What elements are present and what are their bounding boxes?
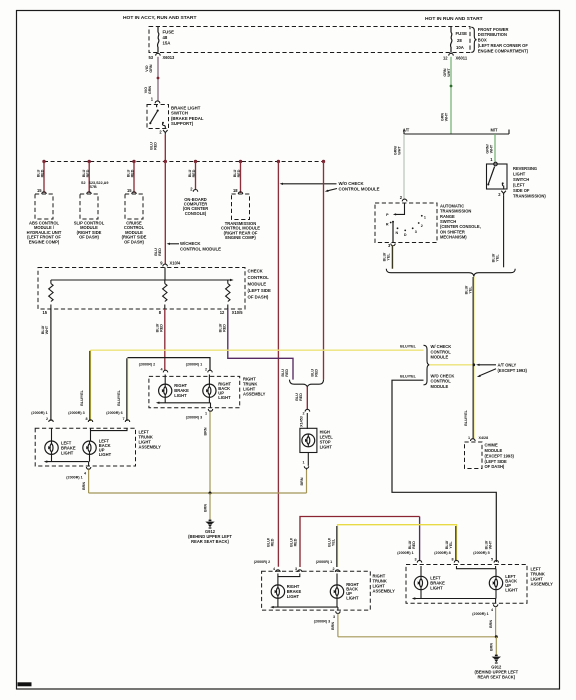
wire BLU/YEL reversing switch down: [492, 195, 504, 267]
diagram id block: [18, 682, 32, 686]
svg-text:SIDE OF: SIDE OF: [513, 188, 530, 193]
svg-text:S2: S2: [81, 181, 86, 185]
connectors above bottom right assembly: [254, 560, 340, 572]
svg-text:LIGHT: LIGHT: [320, 444, 333, 449]
wire BLU/YEL from range switch: [383, 246, 394, 269]
svg-text:BRN: BRN: [300, 477, 304, 485]
svg-text:RED: RED: [192, 169, 196, 177]
wire BLU/RED to transmission control module: [233, 162, 243, 195]
svg-text:(2000R) 1: (2000R) 1: [472, 612, 488, 616]
reversing light switch box: [487, 162, 508, 189]
connectors above right trunk light assembly: [139, 362, 212, 372]
svg-text:FUSE: FUSE: [456, 31, 468, 36]
svg-text:ENGINE COMPARTMENT): ENGINE COMPARTMENT): [478, 48, 529, 53]
svg-text:MECHANISM): MECHANISM): [440, 235, 467, 240]
bottom right trunk light assembly box: [262, 571, 371, 610]
wire BRN to G912 (bottom): [490, 637, 497, 656]
right brake light bulb: [159, 384, 172, 397]
pins below check module, connector X10/5: [42, 310, 243, 315]
right back up light bulb (bottom): [330, 585, 343, 598]
wire BRN left assembly to ground bus: [82, 469, 88, 493]
svg-text:BRN: BRN: [203, 427, 207, 435]
svg-text:YEL: YEL: [496, 254, 500, 262]
bottom left ground exit connector: [472, 604, 498, 615]
svg-text:(2000R) 1: (2000R) 1: [186, 362, 202, 366]
svg-text:2: 2: [421, 224, 423, 228]
svg-text:RED: RED: [86, 169, 90, 177]
left trunk light assembly box: [35, 428, 135, 466]
svg-text:TRANSMISSION): TRANSMISSION): [513, 194, 546, 199]
svg-text:REAR SEAT BACK): REAR SEAT BACK): [477, 675, 515, 680]
svg-text:3: 3: [415, 230, 417, 234]
wire BLU/YEL merged down to chime module: [464, 277, 475, 440]
brace w/check - w/o check: [424, 345, 430, 385]
wire BLU/RED merged to high level stop light: [295, 387, 307, 410]
svg-text:(2000R) 2: (2000R) 2: [254, 560, 270, 564]
svg-text:3: 3: [414, 558, 416, 562]
svg-text:BRN: BRN: [203, 504, 207, 512]
svg-text:30809: 30809: [20, 683, 29, 687]
right assembly ground exit connector: [186, 409, 213, 420]
svg-text:YEL: YEL: [449, 541, 453, 549]
svg-text:W/O CHECK: W/O CHECK: [431, 373, 455, 378]
svg-text:(EXCEPT 1993): (EXCEPT 1993): [498, 368, 528, 373]
left back up light bulb (bottom): [489, 576, 502, 589]
svg-text:CHECK: CHECK: [248, 269, 264, 274]
svg-text:CONTROL: CONTROL: [431, 379, 452, 384]
left trunk light assembly internals: [44, 428, 127, 466]
A/T - M/T split line: [403, 128, 509, 134]
wire GRN/WHT to A/T range switch: [394, 134, 407, 201]
reversing switch exit connector: [498, 191, 506, 197]
svg-text:28: 28: [457, 38, 462, 43]
svg-text:YEL: YEL: [387, 253, 391, 261]
bracket for front power distribution box: [471, 27, 476, 52]
svg-text:FRONT POWER: FRONT POWER: [478, 27, 509, 32]
wire BLU/RED check module to right brake light: [156, 309, 165, 371]
svg-text:SWITCH: SWITCH: [171, 111, 188, 116]
svg-text:LIGHT: LIGHT: [99, 452, 112, 457]
label W/CHECK CONTROL MODULE (left): [167, 241, 222, 251]
svg-text:(LEFT REAR CORNER OF: (LEFT REAR CORNER OF: [478, 43, 529, 48]
wire labels above bottom left assembly: [408, 540, 493, 549]
svg-text:RED: RED: [160, 324, 164, 332]
bottom left trunk light assembly label: [531, 567, 554, 587]
wire BLU/YEL vertical to left back up light: [80, 350, 91, 421]
wire BLU/RED (maroon) linking bottom brake lights: [300, 517, 420, 568]
svg-text:WHT: WHT: [45, 325, 49, 334]
svg-text:LIGHT: LIGHT: [513, 172, 526, 177]
svg-text:15A: 15A: [163, 41, 171, 46]
svg-text:WHT: WHT: [489, 540, 493, 549]
svg-text:X10/5: X10/5: [232, 310, 243, 315]
bottom right assembly internals: [270, 574, 359, 611]
svg-text:(EXCEPT 1993): (EXCEPT 1993): [485, 453, 515, 458]
wire BLU/RED (violet) check module to high level stop light: [219, 309, 294, 380]
resistor R2: [163, 280, 167, 309]
left trunk light assembly label: [139, 430, 162, 450]
svg-text:(2000R) 1: (2000R) 1: [31, 411, 47, 415]
connector X6011: [443, 53, 468, 60]
svg-text:MODULE: MODULE: [485, 448, 503, 453]
label A/T ONLY (EXCEPT 1993): [476, 363, 527, 377]
wire BRN to G912 (mid): [203, 493, 210, 521]
svg-text:MODULE: MODULE: [248, 282, 267, 287]
svg-text:W/O CHECK: W/O CHECK: [339, 181, 365, 186]
wire BLU/RED brake switch to check control module: [164, 162, 166, 265]
svg-text:BRN: BRN: [82, 482, 86, 490]
svg-text:12: 12: [220, 310, 225, 315]
left brake light bulb (bottom): [414, 576, 427, 589]
svg-text:LIGHT: LIGHT: [287, 594, 300, 599]
svg-text:(2000R) 1: (2000R) 1: [316, 560, 332, 564]
svg-text:RED: RED: [131, 169, 135, 177]
connectors above left trunk light assembly: [31, 411, 129, 422]
svg-text:(2000R) 1: (2000R) 1: [397, 551, 413, 555]
brake light switch S (dashed box): [147, 97, 204, 135]
svg-text:(2000R) 8: (2000R) 8: [434, 551, 450, 555]
svg-text:ASSEMBLY: ASSEMBLY: [243, 391, 266, 396]
svg-text:BRN: BRN: [489, 620, 493, 628]
svg-text:OF DASH): OF DASH): [248, 295, 269, 300]
svg-text:OF DASH): OF DASH): [485, 464, 505, 469]
svg-text:15: 15: [37, 188, 42, 193]
connector X10/4: [160, 260, 181, 266]
bottom left trunk light assembly box: [406, 565, 527, 604]
front power distribution box text: [478, 27, 529, 54]
svg-text:BLU/YEL: BLU/YEL: [117, 389, 121, 406]
svg-text:W/CHECK: W/CHECK: [180, 241, 201, 246]
wire BRN bottom right assembly to ground bus: [331, 614, 338, 637]
connector X1453 into high level stop light: [300, 409, 310, 427]
right brake light bulb (bottom): [271, 585, 284, 598]
svg-text:ENGINE COMP): ENGINE COMP): [29, 239, 60, 244]
fuse F48: [157, 27, 174, 53]
svg-text:CHIME: CHIME: [485, 443, 498, 448]
svg-text:2: 2: [205, 367, 207, 371]
svg-text:LIGHT: LIGHT: [218, 395, 231, 400]
svg-text:GRN: GRN: [149, 64, 153, 73]
bus junction dots: [42, 160, 325, 163]
svg-text:OF DASH): OF DASH): [79, 235, 99, 240]
svg-text:2: 2: [332, 567, 334, 571]
wire GRN/WHT to reversing light switch: [485, 134, 495, 162]
svg-text:3: 3: [333, 615, 335, 619]
chime module text: [485, 443, 515, 470]
wire BLU/RED to ABS module: [37, 162, 47, 195]
svg-text:CONTROL MODULE: CONTROL MODULE: [180, 246, 221, 251]
svg-text:R: R: [386, 223, 389, 227]
dashed distribution bus: [44, 161, 324, 163]
svg-text:HOT IN RUN AND START: HOT IN RUN AND START: [425, 16, 483, 22]
svg-text:WHT: WHT: [445, 112, 449, 121]
svg-text:BOX: BOX: [478, 38, 487, 43]
svg-text:ASSEMBLY: ASSEMBLY: [139, 445, 162, 450]
left back up light bulb: [83, 441, 96, 454]
ABS control module box: [27, 194, 62, 244]
fuse F28: [450, 27, 467, 53]
svg-text:X6011: X6011: [456, 56, 468, 61]
svg-text:RED: RED: [314, 369, 318, 377]
left assembly ground exit connector: [66, 467, 91, 480]
svg-text:DISTRIBUTION: DISTRIBUTION: [478, 32, 507, 37]
svg-text:WHT: WHT: [447, 68, 451, 77]
svg-text:FUSE: FUSE: [163, 30, 175, 35]
right trunk light assembly box: [149, 376, 240, 407]
check control module internals: [49, 268, 234, 310]
ground G912 (bottom): [474, 655, 518, 680]
svg-text:RED: RED: [41, 169, 45, 177]
svg-text:A/T ONLY: A/T ONLY: [498, 363, 517, 368]
label W/ CHECK CONTROL MODULE: [431, 344, 452, 360]
reversing light switch text: [513, 166, 546, 199]
check control module box (dashed): [38, 268, 245, 310]
svg-text:MODULE: MODULE: [431, 355, 449, 360]
bottom left assembly internals: [412, 566, 518, 603]
svg-text:BLU/YEL: BLU/YEL: [464, 409, 468, 426]
svg-text:12: 12: [443, 56, 448, 61]
wire BLU/YEL linking bottom back up lights: [337, 525, 457, 567]
svg-text:REAR SEAT BACK): REAR SEAT BACK): [191, 539, 229, 544]
svg-text:(LEFT SIDE: (LEFT SIDE: [485, 459, 508, 464]
svg-text:ASSEMBLY: ASSEMBLY: [531, 582, 554, 587]
svg-text:RED: RED: [299, 393, 303, 401]
left brake light bulb: [45, 441, 58, 454]
svg-text:RED: RED: [412, 541, 416, 549]
svg-text:3: 3: [295, 567, 297, 571]
svg-text:1: 1: [205, 412, 207, 416]
resistor R3: [226, 280, 230, 309]
wire BLU/RED (bus end to high level stop light): [323, 162, 325, 380]
bottom right trunk light assembly label: [373, 574, 396, 594]
svg-text:CONTROL MODULE: CONTROL MODULE: [339, 187, 380, 192]
wire BLU/RED brake switch to bus: [150, 135, 166, 162]
svg-text:BLU/YEL: BLU/YEL: [400, 344, 417, 348]
A/T range switch exit connector: [388, 243, 395, 248]
svg-text:N: N: [395, 231, 398, 235]
svg-text:RED: RED: [223, 324, 227, 332]
svg-text:ENGINE COMP): ENGINE COMP): [225, 235, 256, 240]
svg-text:WHT: WHT: [489, 144, 493, 153]
svg-text:BLU/YEL: BLU/YEL: [400, 374, 417, 378]
svg-text:(LEFT SIDE: (LEFT SIDE: [248, 288, 272, 293]
svg-text:(2000R) 5: (2000R) 5: [473, 551, 489, 555]
svg-text:RED: RED: [294, 538, 298, 546]
svg-text:1: 1: [424, 215, 426, 219]
ground G912 (mid): [188, 520, 232, 545]
svg-text:W/ CHECK: W/ CHECK: [431, 344, 452, 349]
svg-text:RED: RED: [154, 142, 158, 150]
svg-text:RED: RED: [158, 248, 162, 256]
connectors above bottom left assembly: [397, 551, 498, 562]
svg-text:LIGHT: LIGHT: [174, 393, 187, 398]
right trunk light assembly internals: [156, 375, 232, 408]
cruise control module box: [122, 194, 147, 244]
wire BLU/RED to on-board computer: [188, 162, 198, 192]
connector X6013: [148, 53, 175, 60]
svg-text:X6013: X6013: [163, 55, 176, 60]
svg-text:2: 2: [302, 411, 304, 415]
wire BLU/RED to cruise control module: [127, 162, 137, 195]
power distribution box (dashed): [149, 27, 470, 53]
svg-text:BRN: BRN: [490, 643, 494, 651]
ground bus (bottom): [338, 636, 496, 638]
svg-text:7: 7: [122, 417, 124, 421]
svg-text:(2000R) 3: (2000R) 3: [68, 411, 84, 415]
svg-text:18: 18: [233, 188, 238, 193]
svg-text:(BRAKE PEDAL: (BRAKE PEDAL: [171, 116, 204, 121]
wire backup jumper (left assembly to right back up light): [128, 358, 211, 371]
svg-text:D: D: [404, 233, 407, 237]
svg-text:HOT IN ACCY, RUN AND START: HOT IN ACCY, RUN AND START: [123, 15, 196, 21]
high level stop light: [300, 413, 333, 470]
automatic transmission range switch box: [375, 203, 437, 243]
resistor R1: [49, 280, 53, 309]
wire BRN bottom left assembly to ground bus: [489, 607, 496, 637]
label W/O CHECK CONTROL MODULE (arrows to red feeds): [280, 181, 380, 192]
wire BLU/YEL brace to junction: [429, 364, 472, 366]
svg-text:(2000R) 3: (2000R) 3: [314, 620, 330, 624]
svg-text:(2000R) 3: (2000R) 3: [186, 416, 202, 420]
svg-text:SUPPORT): SUPPORT): [171, 121, 194, 126]
A/T range switch text: [440, 203, 481, 239]
svg-text:LIGHT: LIGHT: [61, 450, 74, 455]
svg-text:OF DASH): OF DASH): [124, 239, 144, 244]
svg-text:MODULE: MODULE: [431, 384, 449, 389]
wire BLU/WHT check module to left brake light: [41, 309, 51, 421]
svg-text:YEL: YEL: [468, 286, 472, 294]
svg-text:8: 8: [85, 417, 87, 421]
svg-text:(LEFT: (LEFT: [513, 183, 525, 188]
svg-text:1: 1: [468, 436, 470, 440]
right back up light bulb: [203, 384, 216, 397]
wire BRN right assembly to ground bus: [203, 412, 210, 494]
svg-text:CONSOLE): CONSOLE): [185, 211, 207, 216]
svg-text:YEL: YEL: [331, 538, 335, 546]
wire BRN high level stop light to ground bus: [300, 470, 307, 493]
svg-text:10A: 10A: [456, 45, 464, 50]
svg-text:RED: RED: [285, 369, 289, 377]
svg-text:53: 53: [148, 55, 153, 60]
svg-text:BRAKE LIGHT: BRAKE LIGHT: [171, 105, 201, 110]
svg-text:X1453: X1453: [300, 416, 304, 427]
svg-text:M/T: M/T: [490, 128, 498, 133]
svg-text:X4/28: X4/28: [479, 436, 489, 440]
svg-text:X10/4: X10/4: [170, 260, 181, 265]
on-board computer text: [183, 197, 209, 216]
svg-text:BRN: BRN: [331, 622, 335, 630]
svg-text:2: 2: [46, 417, 48, 421]
chime module box: [465, 442, 483, 469]
merge bracket A/T + M/T feeds: [386, 269, 515, 277]
wire BLU/YEL vertical (2nd) to left assembly: [117, 358, 128, 421]
bottom right ground exit connector: [314, 611, 340, 623]
svg-text:BLU/YEL: BLU/YEL: [80, 389, 84, 406]
check control module text: [248, 269, 272, 300]
svg-text:LIGHT: LIGHT: [505, 587, 518, 592]
label W/O CHECK CONTROL MODULE: [431, 373, 455, 389]
svg-text:REVERSING: REVERSING: [513, 166, 537, 171]
svg-text:15: 15: [127, 188, 132, 193]
bulb filaments: [48, 446, 51, 449]
svg-text:ASSEMBLY: ASSEMBLY: [373, 589, 396, 594]
A/T range switch internals: [386, 203, 426, 243]
wire BLU/RED to slip control module: [81, 162, 108, 195]
right trunk light assembly label: [243, 376, 266, 396]
svg-text:(2000R) 1: (2000R) 1: [66, 476, 82, 480]
svg-text:S7B: S7B: [90, 185, 98, 189]
svg-text:CONTROL: CONTROL: [431, 349, 452, 354]
svg-text:1: 1: [302, 460, 304, 464]
wire GRN/WHT fuse28 down: [441, 57, 453, 134]
svg-text:LIGHT: LIGHT: [430, 586, 443, 591]
svg-text:48: 48: [163, 35, 168, 40]
svg-text:WHT: WHT: [398, 146, 402, 155]
connector X4/28 chime module: [468, 436, 488, 441]
svg-text:SWITCH: SWITCH: [513, 177, 529, 182]
svg-text:RED: RED: [271, 538, 275, 546]
wire BLU/RED long vertical (bus to right brake light bottom): [277, 162, 279, 567]
svg-text:GRN: GRN: [148, 86, 152, 95]
ground bus (mid): [89, 492, 307, 494]
svg-text:15: 15: [42, 310, 47, 315]
svg-text:5: 5: [491, 558, 493, 562]
svg-text:LIGHT: LIGHT: [346, 596, 359, 601]
wire labels above bottom right assembly: [267, 538, 336, 547]
svg-text:RED: RED: [237, 169, 241, 177]
svg-text:(2000R) 6: (2000R) 6: [106, 411, 122, 415]
svg-text:(2000R) 2: (2000R) 2: [139, 362, 155, 366]
wire BLU/YEL (w/o check) to bottom left backup: [392, 380, 496, 562]
svg-text:8: 8: [451, 558, 453, 562]
slip control module box: [74, 194, 105, 240]
wire VIO/GRN fuse48 to brake switch: [144, 57, 160, 102]
svg-text:CONTROL: CONTROL: [248, 275, 270, 280]
wire BLU/YEL horizontal (w/check control): [91, 349, 424, 351]
svg-text:A/T: A/T: [403, 128, 410, 133]
merge bracket into high level stop light: [281, 369, 324, 387]
transmission control module box: [221, 194, 260, 240]
